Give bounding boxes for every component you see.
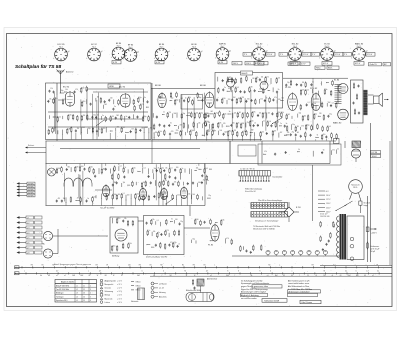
svg-text:220: 220	[319, 113, 322, 115]
svg-text:25µ: 25µ	[329, 113, 332, 115]
svg-text:= 14 V: = 14 V	[117, 295, 123, 297]
capacitor C62	[123, 176, 125, 179]
wire v antenna lead	[56, 95, 58, 141]
resistor R191	[240, 245, 242, 251]
capacitor C77	[172, 183, 174, 186]
svg-text:8k2: 8k2	[105, 104, 108, 106]
wire v x230	[229, 141, 231, 164]
svg-text:= 15 V: = 15 V	[117, 298, 123, 300]
wire	[79, 175, 81, 205]
wire	[198, 164, 200, 166]
tube socket V1 (ECC 85)	[53, 44, 69, 61]
resistor R71	[242, 113, 244, 119]
resistor R128	[61, 166, 63, 172]
capacitor C74	[112, 184, 114, 187]
power cap	[366, 227, 369, 231]
wire	[208, 124, 210, 129]
svg-text:2n: 2n	[97, 115, 99, 117]
node N7	[145, 106, 148, 109]
svg-text:Lötöse: Lötöse	[105, 301, 110, 304]
capacitor C42	[230, 124, 232, 127]
svg-text:Bildröhre MW 43-64: Bildröhre MW 43-64	[186, 289, 201, 292]
capacitor C34	[216, 99, 218, 102]
wire	[186, 199, 188, 206]
resistor R139	[180, 168, 182, 174]
svg-text:Änderungen vorbehalten!: Änderungen vorbehalten!	[289, 290, 311, 293]
svg-text:470: 470	[77, 198, 80, 200]
resistor R176	[178, 230, 180, 236]
resistor R15	[120, 114, 122, 120]
resistor R91	[260, 131, 262, 137]
wire	[231, 87, 233, 92]
resistor R153	[139, 195, 141, 201]
connector strip B	[251, 203, 288, 209]
svg-text:Bildfang: Bildfang	[112, 256, 120, 258]
wire v x230b	[229, 141, 231, 164]
wire	[232, 135, 234, 140]
wire v x152b	[151, 141, 153, 164]
resistor R73	[252, 111, 254, 117]
node N21	[225, 125, 228, 128]
resistor R34	[167, 112, 169, 118]
capacitor C84	[61, 200, 63, 203]
wire	[75, 133, 77, 140]
wire	[211, 131, 213, 136]
svg-text:1k5: 1k5	[323, 134, 326, 136]
transformer tap label	[318, 206, 325, 208]
HV transformer (hatched)	[352, 141, 361, 148]
capacitor C82	[166, 195, 168, 198]
svg-text:5: 5	[90, 296, 91, 298]
resistor R143	[145, 181, 147, 187]
svg-text:10k: 10k	[141, 127, 144, 129]
wire	[249, 135, 251, 141]
wire	[203, 93, 205, 137]
svg-text:PL 83: PL 83	[285, 87, 291, 89]
capacitor C39	[272, 98, 274, 101]
output transformer core	[364, 90, 368, 115]
capacitor C92	[177, 245, 179, 248]
svg-text:12k: 12k	[83, 115, 86, 117]
wire	[123, 164, 125, 167]
svg-text:M1: M1	[170, 275, 172, 277]
connector strip C	[251, 212, 288, 218]
svg-text:5k: 5k	[257, 77, 259, 79]
label box ur4	[327, 66, 339, 69]
wire jack J2	[58, 235, 108, 237]
wire	[221, 124, 223, 127]
node N25	[325, 81, 328, 84]
svg-text:10k: 10k	[159, 131, 162, 133]
svg-text:u2: u2	[372, 275, 374, 277]
svg-text:a: a	[279, 264, 280, 266]
svg-text:10k: 10k	[129, 243, 132, 245]
svg-text:EF 80: EF 80	[155, 85, 162, 87]
svg-text:12k: 12k	[198, 123, 201, 125]
resistor R95	[332, 80, 334, 86]
svg-text:470: 470	[302, 89, 305, 91]
block box L	[110, 217, 138, 253]
resistor R96	[300, 104, 302, 110]
capacitor C38	[264, 99, 266, 102]
svg-text:Geradeaus im Tonempfänger: Geradeaus im Tonempfänger	[255, 221, 279, 223]
tube V11	[102, 184, 109, 196]
svg-text:L4: L4	[76, 296, 78, 298]
bottom maker box 2	[300, 300, 321, 303]
svg-text:100: 100	[81, 166, 84, 168]
svg-text:220: 220	[306, 90, 309, 92]
capacitor C76	[150, 181, 152, 184]
wire heater row	[232, 255, 340, 257]
wire	[266, 113, 268, 119]
capacitor C94	[274, 153, 276, 156]
svg-text:nur mit Messender: nur mit Messender	[241, 297, 257, 300]
svg-text:12k: 12k	[224, 113, 227, 115]
svg-text:3n: 3n	[144, 97, 146, 99]
svg-text:1k5: 1k5	[304, 115, 307, 117]
svg-text:3n: 3n	[238, 122, 240, 124]
svg-text:a 5: a 5	[27, 237, 29, 239]
node N13	[174, 132, 177, 135]
tube V9 EL84 (circle)	[338, 84, 348, 94]
tube socket V4 (EF 80)	[123, 45, 139, 62]
svg-text:12k: 12k	[77, 128, 80, 130]
wire	[270, 78, 272, 84]
tube V1 EC92 triode	[66, 91, 75, 107]
wire	[62, 134, 64, 139]
capacitor C13	[139, 129, 141, 132]
svg-text:8k2: 8k2	[211, 111, 214, 113]
bus ticks	[22, 264, 379, 277]
svg-text:TV-Geräusch: Maß mit LP 63 Ul: TV-Geräusch: Maß mit LP 63 Ulm	[253, 225, 280, 228]
wire	[115, 132, 117, 140]
svg-text:2n: 2n	[263, 121, 265, 123]
resistor R116	[300, 89, 302, 95]
wire	[113, 99, 115, 104]
wire right bus	[320, 264, 392, 266]
wire	[160, 164, 162, 168]
svg-text:Gleichstrom 216 V/ 218mA: Gleichstrom 216 V/ 218mA	[253, 228, 275, 231]
svg-text:g2: g2	[68, 51, 70, 53]
svg-text:12k: 12k	[49, 98, 52, 100]
svg-text:500: 500	[247, 98, 250, 100]
capacitor C89	[160, 233, 162, 236]
wire	[92, 201, 94, 205]
resistor R78	[212, 123, 214, 129]
wire	[295, 137, 297, 141]
svg-text:100 V: 100 V	[233, 63, 239, 65]
svg-text:3n: 3n	[182, 168, 184, 170]
capacitor C67	[159, 96, 161, 99]
svg-text:100: 100	[269, 121, 272, 123]
svg-text:Im Schaltungsteil sind die: Im Schaltungsteil sind die	[241, 279, 262, 282]
resistor R183	[220, 219, 222, 225]
svg-text:3n: 3n	[312, 82, 314, 84]
output box part c	[354, 109, 356, 115]
svg-text:470: 470	[171, 131, 174, 133]
transformer tap label	[318, 211, 325, 213]
svg-text:1k5: 1k5	[237, 87, 240, 89]
capacitor C72	[163, 169, 165, 172]
svg-text:25µ: 25µ	[208, 195, 211, 197]
svg-text:25µ: 25µ	[216, 113, 219, 115]
svg-text:Plan 58 im Fernsehempfänger: Plan 58 im Fernsehempfänger	[258, 200, 283, 202]
resistor R66	[205, 113, 207, 119]
svg-text:a 3: a 3	[27, 227, 29, 229]
wire	[259, 99, 261, 104]
wire	[118, 164, 120, 166]
wire	[312, 89, 314, 93]
capacitor C64	[169, 175, 171, 178]
svg-text:47k: 47k	[266, 77, 269, 79]
wire	[80, 99, 82, 134]
video box top label	[241, 71, 253, 75]
capacitor C80	[201, 181, 203, 184]
wire	[142, 98, 144, 102]
svg-text:= 12 V: = 12 V	[117, 288, 123, 290]
svg-text:10k: 10k	[259, 113, 262, 115]
socket label	[218, 61, 227, 64]
wire	[62, 130, 64, 135]
capacitor C30	[239, 90, 241, 93]
svg-text:8k2: 8k2	[233, 97, 236, 99]
wire	[191, 240, 193, 243]
svg-text:u2: u2	[315, 275, 317, 277]
tube V7 pentode	[288, 92, 298, 110]
tube socket V2 (EC 92)	[86, 44, 102, 61]
svg-text:Zeilen-Oszillator 110 Hz: Zeilen-Oszillator 110 Hz	[145, 256, 167, 259]
wire	[188, 124, 190, 128]
resistor R59	[249, 87, 251, 93]
capacitor C7	[115, 117, 117, 120]
capacitor C93	[204, 221, 206, 224]
wire	[82, 171, 84, 205]
capacitor C2	[104, 100, 106, 103]
svg-text:g2: g2	[201, 51, 203, 53]
wire	[231, 90, 233, 131]
svg-text:170 V: 170 V	[335, 54, 341, 56]
wire speaker	[368, 94, 374, 96]
resistor R163	[116, 218, 118, 224]
resistor R49	[227, 77, 229, 83]
wire	[265, 95, 267, 130]
wire	[193, 97, 195, 131]
node N19	[208, 113, 211, 116]
resistor R149	[112, 194, 114, 200]
capacitor C26	[169, 133, 171, 136]
wire	[176, 112, 178, 117]
svg-text:470: 470	[112, 116, 115, 118]
svg-text:470: 470	[164, 193, 167, 195]
wire	[125, 200, 127, 206]
resistor R13	[105, 116, 107, 122]
resistor R36	[191, 112, 193, 118]
capacitor C28	[259, 78, 261, 81]
wire antenna to tuner	[60, 83, 62, 93]
wire	[186, 99, 188, 133]
svg-text:63: 63	[291, 275, 293, 277]
wire	[244, 98, 246, 132]
wire	[253, 132, 255, 136]
wire	[65, 202, 67, 205]
wire	[70, 167, 72, 172]
svg-text:1k5: 1k5	[83, 101, 86, 103]
wire left col	[57, 229, 59, 254]
wire	[153, 173, 155, 179]
resistor R38	[199, 112, 201, 118]
bus label box 1	[15, 266, 20, 269]
svg-text:1k5: 1k5	[205, 168, 208, 170]
capacitor C37	[250, 99, 252, 102]
power res	[367, 242, 369, 250]
svg-text:Zeile 15: Zeile 15	[370, 64, 378, 66]
transformer tap label	[318, 202, 325, 204]
resistor R142	[141, 182, 143, 188]
IF transformer box	[181, 95, 203, 110]
wire	[320, 81, 322, 85]
wire	[180, 174, 182, 180]
node N42	[296, 150, 299, 153]
socket label	[112, 61, 121, 64]
resistor R72	[247, 112, 249, 118]
wire	[189, 135, 191, 140]
svg-text:10k: 10k	[152, 219, 155, 221]
wire	[262, 121, 264, 127]
resistor R17	[148, 115, 150, 121]
resistor R61	[221, 98, 223, 104]
svg-text:5k: 5k	[298, 149, 300, 151]
wire	[112, 199, 114, 205]
node N36	[169, 220, 172, 223]
svg-text:50p: 50p	[176, 99, 179, 101]
resistor R82	[249, 120, 251, 126]
resistor R184	[231, 239, 233, 245]
resistor R1	[53, 98, 55, 104]
svg-text:3n: 3n	[114, 106, 116, 108]
svg-text:3: 3	[90, 289, 91, 291]
wire	[196, 123, 198, 128]
capacitor C60	[325, 136, 327, 139]
label box ur2	[300, 62, 310, 65]
svg-text:Masse dir.: Masse dir.	[105, 298, 114, 300]
svg-text:g2: g2	[137, 52, 139, 54]
svg-text:10k: 10k	[244, 113, 247, 115]
svg-text:Öffner: Öffner	[136, 280, 141, 283]
node N30	[194, 169, 197, 172]
resistor R31	[174, 99, 176, 105]
capacitor C24	[163, 125, 165, 128]
svg-text:1k5: 1k5	[118, 194, 121, 196]
svg-text:a1: a1	[56, 275, 58, 277]
node N41	[262, 153, 265, 156]
wire	[326, 103, 328, 107]
svg-text:25µ: 25µ	[213, 130, 216, 132]
svg-text:Tonfänger: Tonfänger	[56, 295, 64, 298]
resistor R45	[180, 130, 182, 136]
resistor R161	[80, 197, 82, 203]
svg-text:Bild-ZF: Bild-ZF	[242, 73, 249, 75]
resistor R4	[118, 99, 120, 105]
wire	[304, 137, 306, 141]
pin voltage label	[279, 53, 288, 57]
node N17	[267, 89, 270, 92]
svg-text:6,3V: 6,3V	[156, 62, 161, 64]
svg-text:L2: L2	[76, 289, 78, 291]
capacitor C81	[153, 195, 155, 198]
wire	[112, 168, 114, 198]
svg-text:Ton-ZF 33,4 MHz: Ton-ZF 33,4 MHz	[56, 289, 69, 291]
svg-text:0,1: 0,1	[377, 271, 379, 273]
wire	[92, 132, 94, 139]
wire	[206, 136, 208, 140]
wire	[243, 246, 245, 250]
resistor R97	[312, 103, 314, 109]
svg-text:3n: 3n	[323, 150, 325, 152]
svg-text:500: 500	[198, 182, 201, 184]
tube V4 EF80 pentode	[205, 91, 214, 107]
svg-text:Heizung: Heizung	[159, 292, 166, 294]
svg-text:25µ: 25µ	[292, 132, 295, 134]
fuse	[359, 201, 362, 205]
svg-text:12k: 12k	[63, 198, 66, 200]
svg-text:50p: 50p	[299, 113, 302, 115]
wire	[152, 169, 154, 173]
wire	[101, 198, 103, 205]
svg-text:10k: 10k	[314, 103, 317, 105]
wire	[155, 221, 157, 225]
svg-text:470: 470	[166, 230, 169, 232]
svg-text:500: 500	[224, 131, 227, 133]
resistor R177	[160, 242, 162, 248]
capacitor C14	[48, 90, 50, 93]
node N6	[63, 91, 66, 94]
tube socket V9 (ECL 80)	[287, 44, 303, 61]
wire	[143, 200, 145, 206]
wire	[250, 79, 252, 83]
wire	[96, 133, 98, 139]
capacitor C6	[95, 116, 97, 119]
svg-text:5k: 5k	[189, 97, 191, 99]
resistor R104	[323, 114, 325, 120]
resistor R166	[111, 245, 113, 251]
svg-text:3n: 3n	[102, 115, 104, 117]
svg-text:625 V: 625 V	[323, 63, 329, 65]
wire	[325, 139, 327, 141]
svg-text:50p: 50p	[292, 124, 295, 126]
svg-text:b: b	[270, 271, 271, 273]
capacitor C9	[136, 116, 138, 119]
node N34	[206, 197, 209, 200]
svg-text:2n: 2n	[224, 87, 226, 89]
note block left	[240, 279, 282, 299]
svg-text:Rö 3: Rö 3	[117, 45, 121, 47]
capacitor C68	[66, 168, 68, 171]
svg-text:1k5: 1k5	[69, 115, 72, 117]
svg-text:10k: 10k	[206, 121, 209, 123]
svg-text:25µ: 25µ	[180, 221, 183, 223]
note block right	[287, 279, 321, 296]
svg-text:500: 500	[220, 130, 223, 132]
wire	[115, 128, 117, 132]
wire	[331, 138, 333, 141]
svg-text:220: 220	[128, 264, 131, 266]
wire	[336, 139, 338, 141]
wire sound mid	[95, 189, 112, 191]
svg-text:a 6: a 6	[27, 242, 29, 244]
rectifier block	[347, 216, 364, 260]
node N5	[59, 92, 62, 95]
capacitor C15	[53, 91, 55, 94]
